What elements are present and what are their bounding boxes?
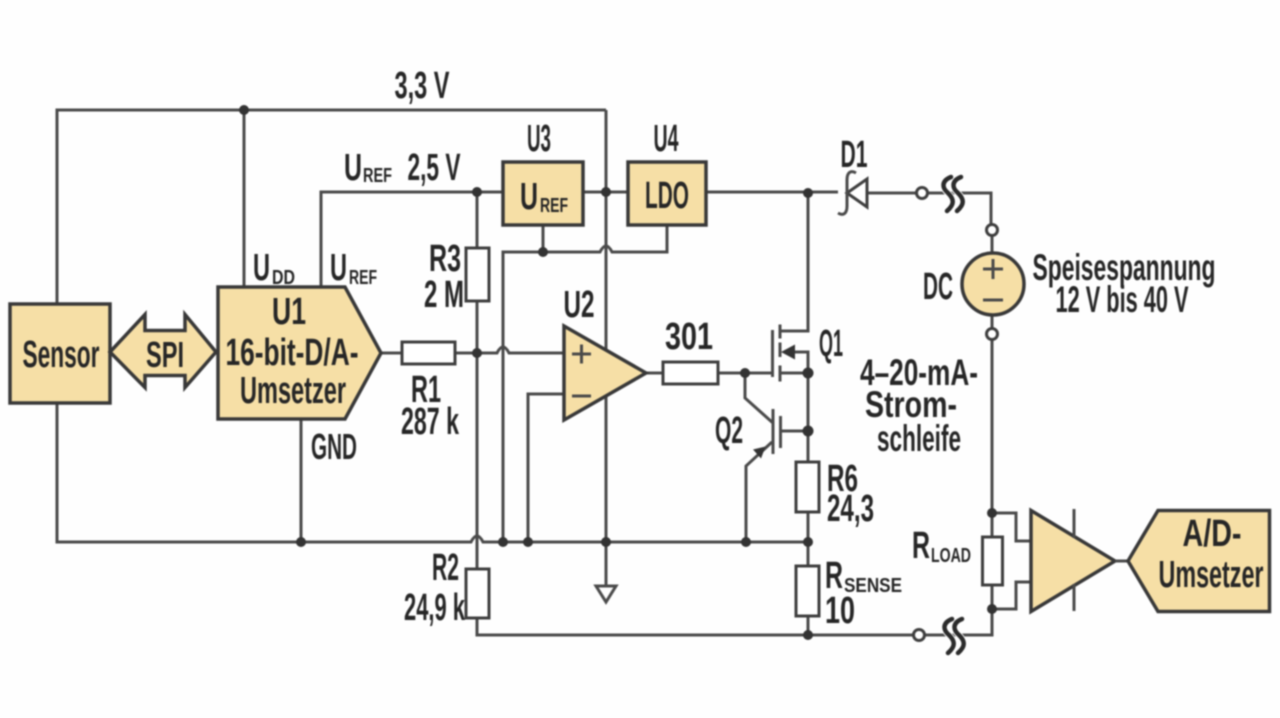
svg-text:U: U — [330, 247, 347, 289]
svg-text:D1: D1 — [841, 134, 868, 176]
svg-text:R: R — [912, 525, 930, 567]
svg-text:Umsetzer: Umsetzer — [240, 370, 346, 412]
svg-text:U: U — [344, 147, 362, 189]
svg-text:U4: U4 — [654, 118, 679, 160]
svg-text:A/D-: A/D- — [1183, 513, 1242, 555]
svg-text:DC: DC — [923, 266, 953, 308]
svg-text:287 k: 287 k — [401, 401, 460, 443]
svg-text:REF: REF — [540, 195, 568, 217]
svg-text:Umsetzer: Umsetzer — [1159, 554, 1264, 596]
svg-text:LDO: LDO — [645, 175, 689, 217]
svg-text:24,3: 24,3 — [827, 488, 874, 530]
svg-text:U: U — [520, 176, 538, 218]
svg-text:2 M: 2 M — [424, 274, 464, 316]
svg-text:301: 301 — [665, 316, 713, 358]
svg-text:U: U — [253, 247, 270, 289]
svg-text:12 V bis 40 V: 12 V bis 40 V — [1056, 279, 1189, 320]
svg-text:GND: GND — [311, 426, 357, 467]
svg-text:SPI: SPI — [146, 334, 184, 375]
svg-text:schleife: schleife — [877, 418, 961, 459]
svg-text:U3: U3 — [527, 118, 551, 160]
svg-text:24,9 k: 24,9 k — [404, 587, 465, 629]
svg-text:LOAD: LOAD — [931, 545, 971, 567]
svg-text:16-bit-D/A-: 16-bit-D/A- — [226, 332, 359, 374]
svg-text:2,5 V: 2,5 V — [408, 147, 461, 189]
svg-text:U1: U1 — [272, 291, 306, 333]
svg-text:Sensor: Sensor — [23, 334, 100, 376]
svg-text:10: 10 — [825, 590, 855, 632]
svg-text:R2: R2 — [432, 547, 459, 589]
svg-text:U2: U2 — [564, 284, 595, 326]
svg-text:REF: REF — [363, 165, 392, 187]
svg-text:Q2: Q2 — [715, 410, 743, 452]
svg-text:3,3 V: 3,3 V — [395, 65, 450, 107]
svg-text:DD: DD — [272, 267, 295, 289]
svg-text:Q1: Q1 — [819, 323, 843, 365]
svg-text:REF: REF — [349, 267, 377, 289]
